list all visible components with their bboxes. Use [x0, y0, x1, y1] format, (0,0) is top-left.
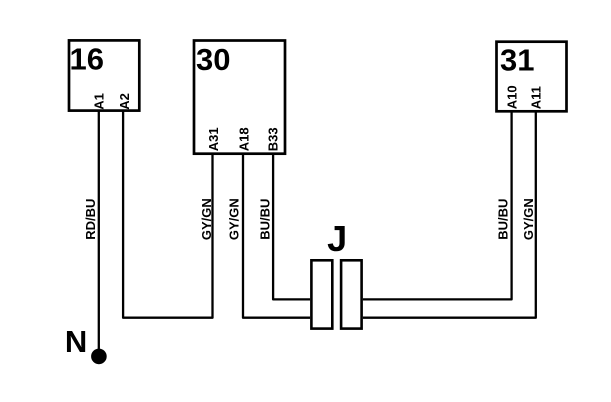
svg-text:A31: A31 [206, 127, 221, 151]
node N label [65, 324, 87, 359]
svg-text:GY/GN: GY/GN [227, 198, 242, 240]
svg-text:B33: B33 [266, 127, 281, 151]
svg-text:16: 16 [70, 41, 104, 76]
svg-text:A10: A10 [504, 85, 519, 109]
svg-text:BU/BU: BU/BU [495, 199, 510, 240]
node N terminal dot [91, 349, 107, 365]
wire BU/BU from junction J right side to pin A10 [363, 111, 512, 299]
connector box 30 [194, 41, 285, 154]
label RD/BU [83, 199, 98, 240]
connector box 31 [497, 42, 567, 112]
connector box 16 [69, 40, 139, 110]
wire GY/GN from junction J right side to pin A11 [363, 111, 536, 318]
junction J right connector half [341, 260, 362, 328]
wire RD/BU from pin A1 to node N [98, 111, 100, 352]
label GY/GN (A31 wire) [199, 198, 214, 240]
svg-text:GY/GN: GY/GN [521, 198, 536, 240]
svg-text:A18: A18 [237, 127, 252, 151]
label BU/BU (A10 wire) [495, 199, 510, 240]
svg-text:J: J [327, 218, 347, 259]
svg-text:RD/BU: RD/BU [83, 199, 98, 240]
junction J left connector half [311, 260, 332, 328]
pin A18 [237, 127, 252, 151]
pin A11 [528, 86, 543, 109]
svg-text:30: 30 [196, 42, 230, 77]
svg-text:BU/BU: BU/BU [258, 199, 273, 240]
wire GY/GN from pin A2 to pin A31 [123, 111, 212, 318]
svg-text:A11: A11 [528, 86, 543, 109]
svg-text:N: N [65, 324, 87, 359]
pin A2 [117, 93, 132, 110]
label BU/BU (B33 wire) [258, 199, 273, 240]
pin A31 [206, 127, 221, 151]
label GY/GN (A18 wire) [227, 198, 242, 240]
pin A10 [504, 85, 519, 109]
svg-text:A2: A2 [117, 93, 132, 110]
junction J label [327, 218, 347, 259]
svg-text:A1: A1 [91, 93, 106, 110]
wire GY/GN from pin A18 to junction J left side [243, 153, 310, 318]
label GY/GN (A11 wire) [521, 198, 536, 240]
pin B33 [266, 127, 281, 151]
svg-text:GY/GN: GY/GN [199, 198, 214, 240]
wire BU/BU from pin B33 to junction J left side [273, 153, 310, 299]
pin A1 [91, 93, 106, 110]
svg-text:31: 31 [500, 43, 534, 78]
